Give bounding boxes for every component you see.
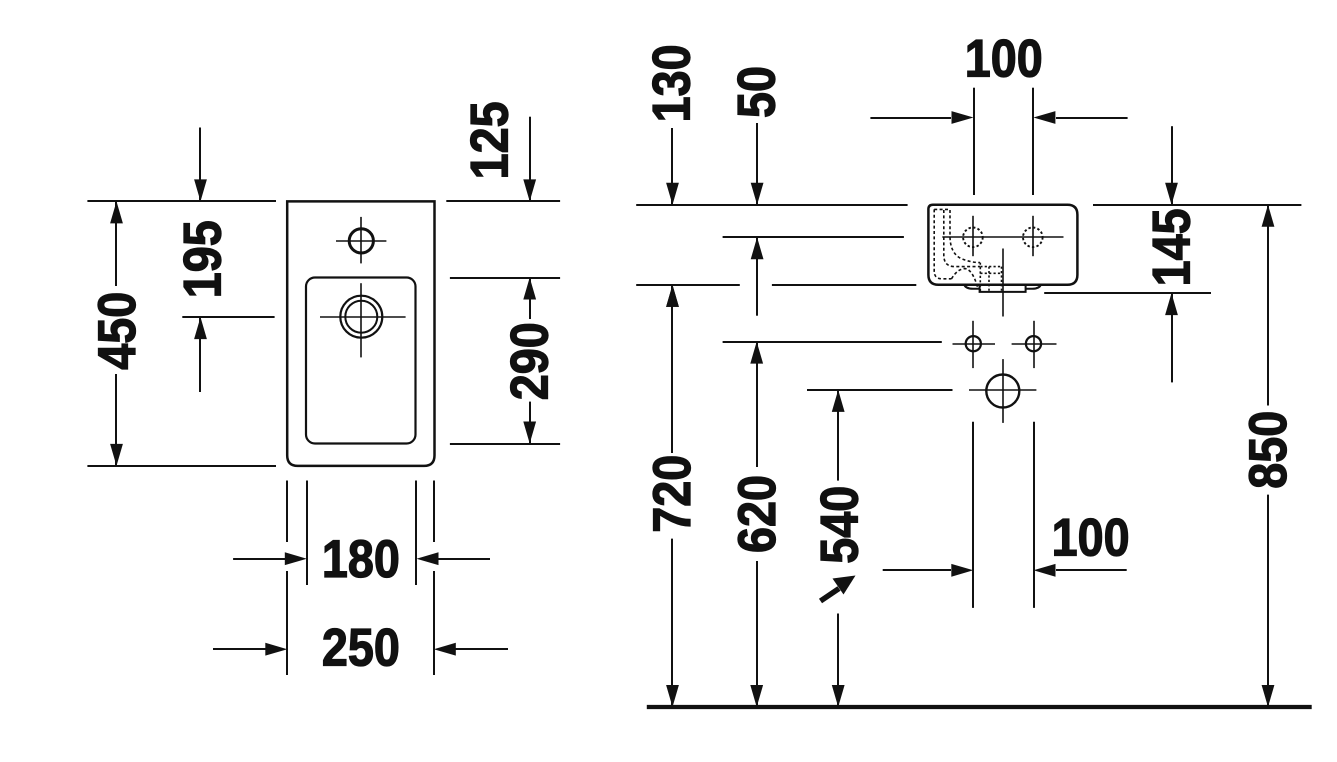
svg-text:125: 125 [461,101,520,179]
dimension 100-top right stem [1056,117,1128,119]
svg-text:145: 145 [1143,208,1202,286]
right view: fixing hole left crosshair [953,321,996,368]
svg-text:100: 100 [965,30,1043,89]
right view: basin-bottom reference line [636,284,916,286]
dimension 195 lower stem [199,317,201,392]
dimension 180 right stem [428,558,490,560]
dimension 720 stem [671,285,673,707]
svg-text:290: 290 [501,322,560,400]
right view: collar-bottom reference line [1044,292,1211,294]
left view: drain crosshair [320,283,406,357]
dimension 450 bottom arrow [110,444,123,466]
right view: centerline through drain [1002,359,1004,423]
left view: bowl-top right extension line [450,277,560,279]
dimension 100-bottom left stem [883,569,951,571]
dimension 620 top arrow [750,342,763,364]
dimension 100-bottom right stem [1056,569,1127,571]
right view: basin outline [928,205,1077,285]
right view: tap hole right vertical crosshair [1032,216,1034,256]
right view: mounting collar [964,284,1042,292]
right view: fixing-hole reference line [723,341,942,343]
left view: drain-level extension line [182,316,274,318]
dimension 250 right arrow [434,643,456,656]
dimension 540 stem [837,390,839,707]
right view: interior dashed outer wall [934,209,951,278]
dimension 50 top arrow [751,183,764,205]
left view: tap hole crosshair [336,217,386,264]
right view: interior dashed inner wall [944,210,980,267]
left view: drain inner circle [345,301,377,333]
dimension 620 stem [756,342,758,707]
dimension 130 top arrow [666,183,679,205]
dimension 250 left arrow [265,643,287,656]
right view: fixing hole right [1026,336,1041,351]
dimension 50 lower stem [756,237,758,315]
right view: interior dashed basin curve [950,210,980,263]
dimension 290 bottom arrow [523,422,536,444]
dimension 145 lower stem [1171,293,1173,382]
dimension 540 floor arrow [832,685,845,707]
svg-text:720: 720 [643,455,702,533]
dimension 850 floor arrow [1262,685,1275,707]
dimension 850 stem [1267,205,1269,707]
right view: interior dashed rim top [934,208,950,210]
dimension 130 bottom arrow [666,285,679,307]
right view: top reference line left [636,204,907,206]
left view: outer-right lower extension [433,481,435,676]
dimension 450 top arrow [110,201,123,223]
dimension 100-top left extension [973,88,975,195]
right view: tap-level reference line [723,236,904,238]
left view: inner-right lower extension [415,481,417,586]
dimension 450 stem [115,201,117,466]
right view: drain outlet crosshair [969,389,1036,391]
dimension 195 top arrow [194,179,207,201]
right view: fixing hole left [966,336,981,351]
svg-text:250: 250 [322,619,400,678]
svg-text:100: 100 [1052,508,1130,567]
svg-text:540: 540 [810,486,869,564]
left view: inner-left lower extension [306,481,308,586]
dimension 195 upper stem [199,128,201,202]
dimension 100-top right extension [1032,88,1034,195]
540 diagonal pointer arrow [821,576,856,602]
right view: tap hole left (dashed) [963,228,983,248]
dimension 290 stem [529,278,531,444]
svg-text:130: 130 [643,44,702,122]
svg-text:850: 850 [1239,411,1298,489]
left view: outer-left lower extension [286,481,288,676]
right view: dashed drain box [980,263,1001,292]
right view: tap holes horizontal crosshair [942,236,1063,238]
left view: top extension line [87,200,276,202]
dimension 125 stem [529,117,531,202]
left view: basin outline [287,201,434,466]
right view: interior dashed bowl underside [952,269,978,289]
right view: tap hole right (dashed) [1023,228,1043,248]
dimension 195 bottom arrow [194,317,207,339]
dimension 100-top left arrow [952,111,974,124]
dimension 50 upper stem [756,123,758,205]
left view: bowl-bottom right extension line [450,443,560,445]
dimension 50 bottom arrow [751,237,764,259]
dimension 720 top arrow [666,285,679,307]
svg-text:195: 195 [174,220,233,298]
dimension 180 left arrow [285,552,307,565]
right view: tap hole left vertical crosshair [972,216,974,256]
dimension 130 stem [671,128,673,205]
right view: centerline upper [1002,249,1004,317]
dimension 620 floor arrow [750,685,763,707]
dimension 290 top arrow [523,278,536,300]
svg-text:620: 620 [728,475,787,553]
dimension 145 bottom arrow [1165,293,1178,315]
svg-text:450: 450 [88,292,147,370]
dimension 100-top left stem [870,117,951,119]
dimension 100-bottom left arrow [951,564,973,577]
dimension 100-bottom right extension [1033,422,1035,608]
dimension 100-bottom left extension [972,422,974,608]
left view: top-right extension line [446,200,560,202]
right view: drain-level reference line [807,389,953,391]
dimension 180 left stem [233,558,293,560]
left view: bottom extension line [87,465,276,467]
dimension 100-top right arrow [1033,111,1055,124]
dimension 125 arrow [523,179,536,201]
dimension 250 left stem [213,648,273,650]
left view: drain outer circle [340,296,382,338]
dimension 145 top arrow [1165,183,1178,205]
dimension 180 right arrow [417,552,439,565]
svg-text:180: 180 [322,530,400,589]
right view: fixing hole right crosshair [1012,321,1057,368]
right view: top reference line right [1093,204,1301,206]
right view: drain outlet circle [986,375,1019,408]
left view: tap hole [349,229,373,253]
svg-text:50: 50 [727,66,786,118]
left view: inner bowl rim [306,278,416,444]
dimension 100-bottom right arrow [1034,564,1056,577]
dimension 250 right stem [448,648,508,650]
floor line [647,705,1312,709]
dimension 540 top arrow [832,390,845,412]
dimension 145 upper stem [1171,126,1173,205]
dimension 720 floor arrow [666,685,679,707]
dimension 850 top arrow [1262,205,1275,227]
